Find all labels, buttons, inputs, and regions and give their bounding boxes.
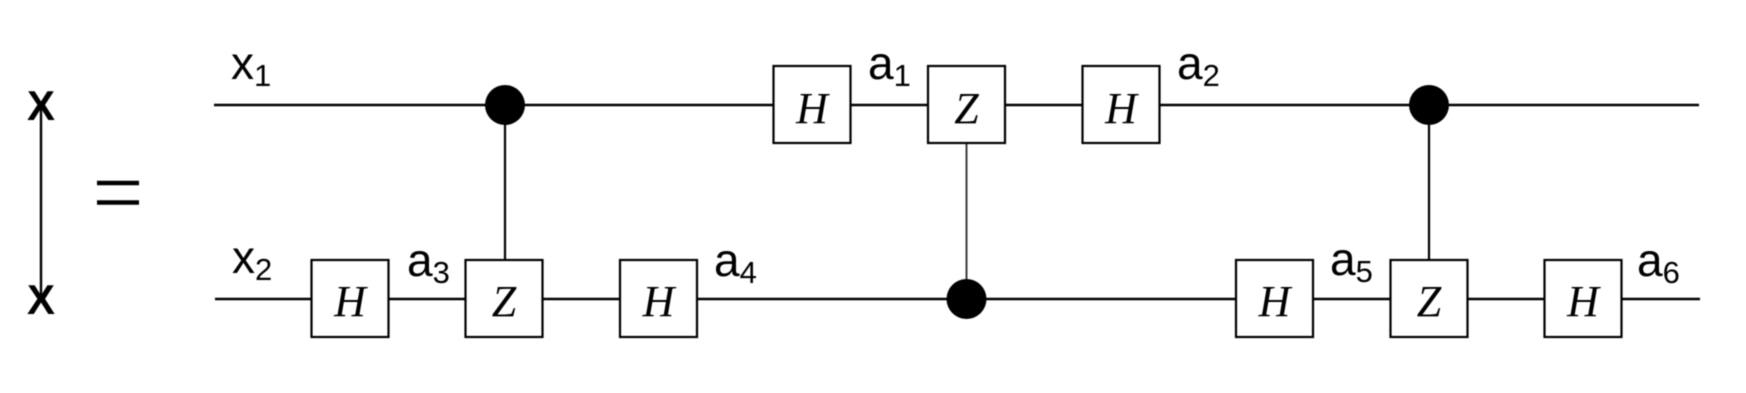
gate H (top wire, 1st) [774, 66, 851, 143]
svg-text:Z: Z [492, 277, 517, 326]
control dot on top wire (CZ 3) [1409, 85, 1449, 125]
swap symbol X (top qubit) [27, 82, 55, 129]
svg-text:H: H [1258, 277, 1293, 326]
node label a3 [407, 234, 450, 290]
node label x1 [231, 37, 271, 93]
svg-text:Z: Z [1417, 277, 1442, 326]
svg-text:H: H [1104, 84, 1139, 133]
gate H (bottom wire, 1st) [312, 260, 389, 337]
vertical wire of CZ gate 1 (control top, Z bottom) [504, 105, 506, 260]
gate H (bottom wire, 3rd) [1236, 260, 1313, 337]
gate Z (bottom wire, CZ 1 target) [466, 260, 543, 337]
gate Z (bottom wire, CZ 3 target) [1391, 260, 1468, 337]
svg-text:Z: Z [954, 84, 979, 133]
swap symbol X (bottom qubit) [27, 276, 55, 323]
svg-text:X: X [27, 82, 55, 129]
svg-text:H: H [795, 84, 830, 133]
vertical wire of CZ gate 3 (control top, Z bottom) [1428, 105, 1430, 260]
node label a4 [714, 234, 757, 290]
gate H (top wire, 2nd) [1083, 66, 1160, 143]
gate H (bottom wire, 4th) [1545, 260, 1622, 337]
swap symbol vertical wire [40, 106, 42, 297]
node label a5 [1330, 233, 1373, 289]
control dot on bottom wire (CZ 2) [947, 279, 987, 319]
node label a1 [868, 37, 911, 93]
wire x2 (bottom qubit line) [215, 298, 1700, 301]
node label x2 [232, 231, 272, 287]
node label a6 [1637, 234, 1680, 290]
equals sign [97, 183, 139, 203]
wire x1 (top qubit line) [214, 104, 1699, 107]
svg-text:H: H [642, 277, 677, 326]
node label a2 [1177, 37, 1220, 93]
gate Z (top wire, CZ 2 target) [928, 66, 1005, 143]
gate H (bottom wire, 2nd) [620, 260, 697, 337]
svg-text:X: X [27, 276, 55, 323]
vertical wire of CZ gate 2 (Z top, control bottom) [966, 143, 968, 299]
svg-text:H: H [1566, 277, 1601, 326]
control dot on top wire (CZ 1) [485, 85, 525, 125]
svg-text:H: H [333, 277, 368, 326]
